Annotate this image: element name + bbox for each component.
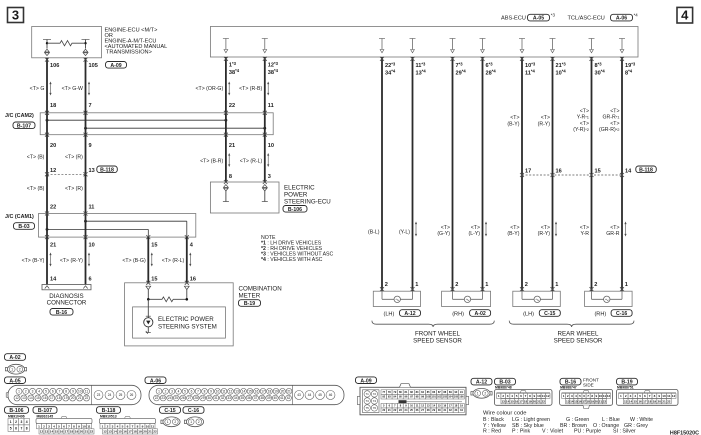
- svg-text:25: 25: [119, 393, 123, 397]
- svg-text:6: 6: [52, 390, 54, 394]
- svg-text:21: 21: [662, 399, 666, 403]
- gallery connector C-15 oval: [163, 417, 180, 427]
- svg-text:B-16: B-16: [56, 310, 67, 316]
- svg-text:22: 22: [667, 399, 671, 403]
- svg-text:4: 4: [681, 8, 689, 23]
- svg-text:1: 1: [190, 420, 192, 424]
- svg-text:1: 1: [415, 282, 418, 288]
- svg-text:20: 20: [143, 430, 147, 434]
- svg-text:SPEED SENSOR: SPEED SENSOR: [554, 337, 603, 344]
- svg-text:12: 12: [15, 396, 19, 400]
- wire B CAM2 20 to B-118 12: [46, 135, 48, 175]
- svg-text:5: 5: [516, 394, 518, 398]
- svg-text:2: 2: [625, 394, 627, 398]
- svg-text:C-15: C-15: [164, 408, 175, 414]
- svg-text:H8F15020C: H8F15020C: [670, 431, 699, 435]
- CAM1 bus line CAN-H: [47, 228, 148, 230]
- svg-text:14: 14: [50, 276, 57, 282]
- svg-text:<T>: <T>: [610, 108, 619, 114]
- svg-text:2: 2: [25, 390, 27, 394]
- svg-text:2: 2: [19, 367, 21, 371]
- svg-text:9: 9: [534, 394, 536, 398]
- wheel sensor wire 3 upper segment: [452, 57, 454, 291]
- svg-text:MB910496: MB910496: [8, 414, 25, 418]
- CAM2 bus line CAN-L: [86, 127, 265, 129]
- svg-text:2: 2: [198, 420, 200, 424]
- wire B-Y CAM1 21 to diagnosis 14: [46, 237, 48, 284]
- svg-text:8: 8: [591, 394, 593, 398]
- svg-text:1: 1: [167, 420, 169, 424]
- svg-text:76: 76: [373, 406, 377, 410]
- svg-text:2: 2: [165, 390, 167, 394]
- svg-text:<T> (R): <T> (R): [65, 155, 83, 161]
- svg-text:7: 7: [525, 394, 527, 398]
- svg-text:23: 23: [161, 396, 165, 400]
- svg-text:19: 19: [138, 430, 142, 434]
- svg-text:44: 44: [308, 393, 312, 397]
- svg-text:2: 2: [174, 420, 176, 424]
- svg-text:17: 17: [519, 399, 523, 403]
- J/C CAM2 box B-107 outline: [40, 113, 273, 135]
- svg-text:12: 12: [40, 430, 44, 434]
- svg-text:A-12: A-12: [476, 380, 487, 386]
- svg-text:20: 20: [281, 390, 285, 394]
- svg-text:6: 6: [15, 426, 17, 430]
- connector label A-02: [470, 310, 491, 317]
- svg-text:104: 104: [448, 395, 453, 399]
- svg-text:2: 2: [385, 282, 388, 288]
- twist arrow mid pair upper: [228, 83, 230, 94]
- svg-text:13: 13: [624, 399, 628, 403]
- twist arrow diagnosis pair: [50, 254, 52, 265]
- svg-text:A-06: A-06: [150, 378, 161, 384]
- gallery label B-106: [5, 407, 29, 414]
- svg-text:*3: *3: [551, 13, 556, 18]
- svg-text:<T>: <T>: [541, 115, 550, 121]
- svg-text:40: 40: [274, 396, 278, 400]
- svg-text:7: 7: [68, 424, 70, 428]
- svg-text:13: 13: [89, 168, 95, 174]
- gallery connector A-09: [360, 387, 466, 415]
- svg-text:<T> (B-Y): <T> (B-Y): [22, 258, 45, 264]
- svg-text:18: 18: [524, 399, 528, 403]
- svg-text:21: 21: [537, 399, 541, 403]
- engine ECU internal pin 105: [82, 39, 90, 41]
- svg-text:14: 14: [625, 169, 632, 175]
- ABS ECU internal pin symbol 8: [550, 38, 556, 40]
- CAN termination resistor inside engine ECU: [47, 41, 86, 46]
- svg-text:100: 100: [426, 395, 431, 399]
- svg-text:18: 18: [133, 430, 137, 434]
- svg-text:MB988751: MB988751: [617, 386, 634, 390]
- svg-text:19: 19: [528, 399, 532, 403]
- svg-text:7: 7: [89, 103, 92, 109]
- svg-text:Wire colour code: Wire colour code: [483, 411, 527, 417]
- ABS ECU internal pin symbol 9: [589, 38, 595, 40]
- svg-text:ELECTRIC POWER: ELECTRIC POWER: [158, 316, 214, 323]
- svg-text:46: 46: [329, 393, 333, 397]
- svg-text:1: 1: [485, 282, 488, 288]
- svg-text:(LH): (LH): [383, 311, 394, 317]
- svg-text:8: 8: [204, 390, 206, 394]
- svg-text:13: 13: [501, 399, 505, 403]
- svg-text:B-19: B-19: [244, 301, 255, 307]
- svg-text:6: 6: [63, 424, 65, 428]
- svg-text:10: 10: [537, 394, 541, 398]
- svg-text:18: 18: [50, 103, 56, 109]
- svg-text:A-02: A-02: [9, 355, 20, 361]
- svg-text:4: 4: [634, 394, 636, 398]
- svg-text:(R-Y): (R-Y): [538, 121, 551, 127]
- svg-text:15: 15: [118, 430, 122, 434]
- svg-text:41: 41: [280, 396, 284, 400]
- svg-text:C-16: C-16: [188, 408, 199, 414]
- svg-text:<T> (R-B): <T> (R-B): [239, 86, 262, 92]
- gallery connector A-12 oval: [473, 388, 490, 398]
- svg-text:22: 22: [90, 430, 94, 434]
- svg-text:3: 3: [571, 394, 573, 398]
- wheel sensor wire 1 upper segment: [381, 57, 383, 291]
- svg-text:1: 1: [102, 424, 104, 428]
- svg-text:11: 11: [151, 424, 155, 428]
- ABS ECU internal pin symbol 3: [379, 38, 385, 40]
- svg-text:10: 10: [89, 243, 95, 249]
- svg-text:(RH): (RH): [452, 311, 464, 317]
- svg-text:22: 22: [229, 103, 235, 109]
- svg-text:COMBINATION: COMBINATION: [239, 285, 282, 292]
- svg-text:SIDE: SIDE: [583, 382, 594, 387]
- svg-text:TRANSMISSION>: TRANSMISSION>: [106, 50, 152, 56]
- ABS ECU internal pin symbol 10: [619, 38, 625, 40]
- twist arrow left pair upper: [50, 83, 52, 94]
- connector label A-09: [106, 62, 127, 69]
- svg-text:28: 28: [194, 396, 198, 400]
- svg-text:22: 22: [603, 399, 607, 403]
- connector label B-107: [13, 122, 35, 129]
- svg-text:A-09: A-09: [110, 63, 121, 69]
- wheel sensor wire 4 upper segment: [482, 57, 484, 291]
- svg-text:22: 22: [85, 396, 89, 400]
- EPS ECU box B-106 outline: [210, 182, 279, 213]
- svg-text:101: 101: [432, 395, 437, 399]
- svg-text:38: 38: [260, 396, 264, 400]
- svg-text:5: 5: [10, 426, 12, 430]
- svg-text:9: 9: [210, 390, 212, 394]
- svg-text:B-107: B-107: [17, 123, 31, 129]
- svg-text:13: 13: [45, 430, 49, 434]
- wheel speed sensor C-15 box: [513, 291, 561, 306]
- ABS ECU internal pin symbol 7: [519, 38, 525, 40]
- svg-text:33: 33: [227, 396, 231, 400]
- svg-text:73: 73: [366, 399, 370, 403]
- svg-text:<T>: <T>: [610, 225, 619, 231]
- twist arrow meter pair: [151, 254, 153, 265]
- gallery label A-05: [5, 377, 26, 384]
- wheel sensor wire 2 upper segment: [412, 57, 414, 291]
- wire R-L CAM2 10 to EPS 3: [264, 135, 266, 182]
- ABS ECU internal pin symbol 5: [450, 38, 456, 40]
- svg-text:2: 2: [15, 420, 17, 424]
- svg-text:42: 42: [287, 396, 291, 400]
- svg-text:MB910145: MB910145: [37, 414, 54, 418]
- svg-text:3: 3: [268, 174, 271, 180]
- svg-text:6: 6: [191, 390, 193, 394]
- svg-text:5: 5: [45, 390, 47, 394]
- svg-text:6: 6: [520, 394, 522, 398]
- svg-text:CONNECTOR: CONNECTOR: [47, 300, 87, 307]
- svg-text:3: 3: [20, 420, 22, 424]
- svg-text:11: 11: [222, 390, 226, 394]
- svg-text:6: 6: [127, 424, 129, 428]
- svg-text:6: 6: [89, 276, 92, 282]
- svg-text:*4: *4: [634, 13, 639, 18]
- svg-text:1: 1: [498, 394, 500, 398]
- svg-text:20: 20: [80, 430, 84, 434]
- svg-text:12: 12: [229, 390, 233, 394]
- svg-text:16: 16: [43, 396, 47, 400]
- svg-text:J/C (CAM2): J/C (CAM2): [5, 113, 34, 119]
- svg-text:20: 20: [658, 399, 662, 403]
- svg-text:MB910513: MB910513: [100, 414, 117, 418]
- svg-text:30: 30: [208, 396, 212, 400]
- svg-text:106: 106: [459, 395, 464, 399]
- svg-text:17: 17: [261, 390, 265, 394]
- svg-text:105: 105: [454, 395, 459, 399]
- ABS ECU internal pin symbol 6: [480, 38, 486, 40]
- front wheel speed sensor brace: [372, 321, 494, 327]
- svg-text:A-09: A-09: [360, 378, 371, 384]
- svg-text:15: 15: [634, 399, 638, 403]
- connector label B-106: [283, 206, 307, 213]
- svg-text:<T> (B): <T> (B): [27, 186, 45, 192]
- wire B-R CAM2 21 to EPS 8: [225, 135, 227, 182]
- svg-text:16: 16: [190, 276, 196, 282]
- svg-text:9: 9: [89, 143, 92, 149]
- svg-text:16: 16: [60, 430, 64, 434]
- svg-text:10: 10: [662, 394, 666, 398]
- svg-text:20: 20: [50, 143, 56, 149]
- svg-text:21: 21: [229, 143, 235, 149]
- svg-text:A-05: A-05: [533, 16, 544, 22]
- svg-text:POWER: POWER: [284, 191, 308, 198]
- diagnosis connector symbol: [42, 285, 91, 290]
- svg-text:72: 72: [373, 392, 377, 396]
- svg-text:10: 10: [268, 143, 274, 149]
- svg-text:8: 8: [26, 426, 28, 430]
- svg-text:15: 15: [510, 399, 514, 403]
- svg-text:106: 106: [50, 63, 59, 69]
- svg-text:<T> (B): <T> (B): [27, 155, 45, 161]
- gallery label A-09: [356, 377, 377, 384]
- svg-text:34: 34: [234, 396, 238, 400]
- svg-text:<T>: <T>: [580, 108, 589, 114]
- svg-text:5: 5: [184, 390, 186, 394]
- svg-text:11: 11: [89, 205, 95, 211]
- svg-text:15: 15: [151, 243, 157, 249]
- svg-text:FRONT WHEEL: FRONT WHEEL: [415, 330, 460, 337]
- svg-text:19: 19: [64, 396, 68, 400]
- svg-text:3: 3: [12, 8, 19, 23]
- wire G-W engine ECU 105 to CAM2 7: [85, 58, 87, 113]
- svg-text:REAR WHEEL: REAR WHEEL: [558, 330, 599, 337]
- wire R-Y CAM1 10 to diagnosis 6: [85, 237, 87, 284]
- svg-text:(B-L): (B-L): [368, 229, 380, 235]
- svg-text:11: 11: [87, 424, 91, 428]
- svg-text:18: 18: [57, 396, 61, 400]
- connector B-118 crossing left: [47, 173, 86, 175]
- svg-text:12: 12: [50, 168, 56, 174]
- svg-text:20: 20: [533, 399, 537, 403]
- svg-text:9: 9: [142, 424, 144, 428]
- wire B B-118 to CAM1 22: [46, 174, 48, 213]
- svg-text:10: 10: [78, 390, 82, 394]
- svg-text:1: 1: [38, 424, 40, 428]
- svg-text:21: 21: [148, 430, 152, 434]
- svg-text:37: 37: [254, 396, 258, 400]
- svg-text:SPEED SENSOR: SPEED SENSOR: [413, 337, 462, 344]
- svg-text:TCL/ASC-ECU: TCL/ASC-ECU: [568, 16, 605, 22]
- svg-text:<T> (R-Y): <T> (R-Y): [60, 258, 83, 264]
- gallery connector C-16 oval: [186, 417, 203, 427]
- svg-text:36: 36: [247, 396, 251, 400]
- svg-text:2: 2: [567, 394, 569, 398]
- svg-text:8: 8: [229, 174, 232, 180]
- meter pin triangles: [146, 281, 150, 285]
- gallery label B-16: [560, 378, 581, 385]
- svg-text:<T>: <T>: [471, 225, 480, 231]
- svg-text:9: 9: [78, 424, 80, 428]
- wheel sensor wire 7 upper segment: [591, 57, 593, 291]
- wheel sensor wire 6 upper segment: [552, 57, 554, 291]
- svg-text:B-106: B-106: [9, 408, 23, 414]
- wheel speed sensor A-02 box: [442, 291, 491, 306]
- svg-text:20: 20: [71, 396, 75, 400]
- svg-text:4: 4: [38, 390, 40, 394]
- ABS/TCL ECU box outline: [210, 27, 638, 58]
- svg-text:(RH): (RH): [594, 311, 606, 317]
- connector label B-16: [50, 309, 73, 316]
- meter internal resistor: [148, 297, 187, 302]
- svg-text:25: 25: [175, 396, 179, 400]
- connector label C-16: [611, 310, 632, 317]
- svg-text:5: 5: [58, 424, 60, 428]
- svg-text:1: 1: [18, 390, 20, 394]
- svg-text:24: 24: [108, 393, 112, 397]
- svg-text:1: 1: [625, 282, 628, 288]
- gallery label A-06: [145, 377, 166, 384]
- svg-text:71: 71: [366, 392, 370, 396]
- gallery label C-16: [183, 407, 204, 414]
- svg-text:35: 35: [241, 396, 245, 400]
- engine ECU box A-09 outline: [32, 27, 102, 58]
- svg-text:C-15: C-15: [544, 311, 555, 317]
- svg-text:14: 14: [506, 399, 510, 403]
- svg-text:14: 14: [29, 396, 33, 400]
- svg-text:12: 12: [103, 430, 107, 434]
- svg-text:102: 102: [437, 395, 442, 399]
- svg-text:14: 14: [113, 430, 117, 434]
- svg-text:<T> (B-R): <T> (B-R): [200, 159, 223, 165]
- svg-text:A-02: A-02: [474, 311, 485, 317]
- svg-text:V : Violet: V : Violet: [542, 429, 564, 435]
- svg-text:13: 13: [108, 430, 112, 434]
- svg-text:10: 10: [82, 424, 86, 428]
- gallery label A-12: [471, 378, 492, 385]
- gallery label B-19: [617, 378, 638, 385]
- svg-text:7: 7: [20, 426, 22, 430]
- svg-text:14: 14: [242, 390, 246, 394]
- svg-text:11: 11: [542, 394, 546, 398]
- svg-text:16: 16: [515, 399, 519, 403]
- svg-text:8: 8: [73, 424, 75, 428]
- twist arrow eps pair: [228, 155, 230, 166]
- svg-text:45: 45: [318, 393, 322, 397]
- svg-text:<T>: <T>: [441, 225, 450, 231]
- svg-text:B-118: B-118: [639, 167, 653, 173]
- svg-text:*4 : VEHICLES WITH ASC: *4 : VEHICLES WITH ASC: [261, 257, 323, 263]
- svg-text:4: 4: [511, 394, 513, 398]
- svg-text:21: 21: [78, 396, 82, 400]
- svg-text:ELECTRIC: ELECTRIC: [284, 184, 315, 191]
- svg-text:103: 103: [443, 395, 448, 399]
- connector B-118 crossing right: [522, 174, 622, 176]
- svg-text:13: 13: [22, 396, 26, 400]
- svg-text:METER: METER: [239, 292, 261, 299]
- svg-text:18: 18: [268, 390, 272, 394]
- svg-text:21: 21: [287, 390, 291, 394]
- svg-text:21: 21: [50, 243, 56, 249]
- svg-text:11: 11: [268, 103, 274, 109]
- svg-text:14: 14: [629, 399, 633, 403]
- connector label B-118 right: [636, 166, 657, 173]
- sheet number 4 box: [677, 7, 693, 23]
- wheel speed sensor C-16 box: [585, 291, 633, 306]
- svg-text:15: 15: [595, 169, 601, 175]
- svg-text:MB988748: MB988748: [495, 386, 512, 390]
- gallery label B-118: [97, 407, 121, 414]
- svg-text:75: 75: [366, 406, 370, 410]
- svg-text:A-06: A-06: [616, 16, 627, 22]
- svg-text:J/C (CAM1): J/C (CAM1): [5, 214, 34, 220]
- svg-text:(LH): (LH): [523, 311, 534, 317]
- svg-text:STEERING SYSTEM: STEERING SYSTEM: [158, 323, 217, 330]
- svg-text:2: 2: [502, 394, 504, 398]
- gallery connector A-06: [149, 385, 344, 404]
- svg-text:22: 22: [155, 396, 159, 400]
- svg-text:(B-Y): (B-Y): [507, 231, 519, 237]
- svg-text:<T> G-W: <T> G-W: [62, 86, 83, 92]
- svg-text:B-118: B-118: [100, 167, 114, 173]
- svg-text:<T>: <T>: [541, 225, 550, 231]
- svg-text:17: 17: [643, 399, 647, 403]
- svg-text:1: 1: [563, 394, 565, 398]
- svg-text:A-12: A-12: [404, 311, 415, 317]
- svg-text:2: 2: [594, 282, 597, 288]
- svg-text:<T> (OR-G): <T> (OR-G): [196, 86, 224, 92]
- connector label C-15: [539, 310, 560, 317]
- svg-text:6: 6: [583, 394, 585, 398]
- gallery connector A-05: [8, 385, 141, 404]
- svg-text:32: 32: [221, 396, 225, 400]
- ABS ECU internal pin symbol 4: [410, 38, 416, 40]
- svg-text:26: 26: [130, 393, 134, 397]
- svg-text:2: 2: [484, 392, 486, 396]
- svg-text:19: 19: [75, 430, 79, 434]
- gallery label A-02: [5, 354, 26, 361]
- wire B-G CAM1 15 to meter 15: [147, 237, 149, 283]
- svg-text:8: 8: [65, 390, 67, 394]
- CAM1 wire crossings: [46, 214, 48, 238]
